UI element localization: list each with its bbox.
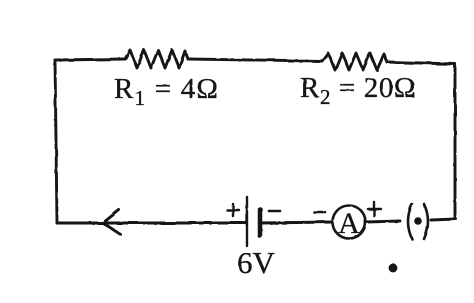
wire ammeter to plug key <box>366 221 401 222</box>
resistor R2 <box>322 53 387 70</box>
svg-text:R2 = 20Ω: R2 = 20Ω <box>300 72 416 109</box>
battery cell 6V : positive plate <box>246 197 248 246</box>
wire bottom-left to battery <box>57 222 246 225</box>
wire plug key to right corner <box>431 219 456 220</box>
battery - polarity mark <box>269 210 280 213</box>
ammeter A circle <box>333 206 366 239</box>
svg-text:R1 = 4Ω: R1 = 4Ω <box>114 73 219 110</box>
current direction arrow <box>103 210 120 234</box>
wire left vertical <box>55 60 57 223</box>
plug key left bracket <box>408 204 412 239</box>
svg-text:A: A <box>338 207 360 240</box>
resistor R1 <box>125 50 188 68</box>
stray ink dot <box>389 264 398 273</box>
wire battery to ammeter <box>260 222 332 223</box>
ammeter - polarity mark <box>314 211 325 214</box>
ammeter + polarity mark <box>368 202 381 216</box>
plug key contact dot <box>414 217 422 225</box>
svg-text:6V: 6V <box>237 245 276 280</box>
wire top-right segment <box>387 62 455 64</box>
battery cell 6V : negative plate <box>258 209 263 236</box>
battery + polarity mark <box>227 204 239 216</box>
wire top-middle segment <box>188 59 322 61</box>
wire top-left segment <box>55 59 125 60</box>
wire right vertical <box>454 64 457 219</box>
plug key right bracket <box>424 204 428 239</box>
